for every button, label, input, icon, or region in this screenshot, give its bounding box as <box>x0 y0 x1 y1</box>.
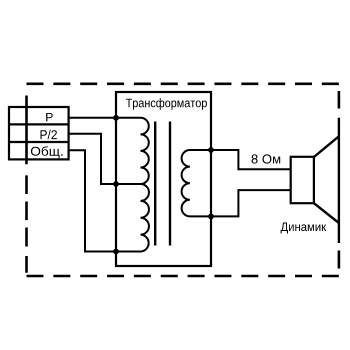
label P/2 <box>41 130 57 139</box>
wire secondary top to speaker <box>211 150 291 169</box>
label Dinamik <box>281 223 327 234</box>
speaker LS1 body <box>291 157 314 203</box>
wire P to primary top <box>69 117 116 119</box>
speaker cone lower slant <box>314 203 339 223</box>
wire P/2 to primary middle tap <box>69 134 116 184</box>
terminal box <box>9 107 69 159</box>
wire secondary bottom to speaker <box>211 190 291 216</box>
dashed enclosure bottom edge <box>27 275 339 278</box>
dashed enclosure right edge <box>338 91 341 269</box>
junction dot primary top <box>113 115 119 121</box>
speaker cone mouth vertical <box>338 118 340 243</box>
dashed enclosure top edge <box>27 83 339 86</box>
transformer core line right <box>169 122 171 246</box>
transformer T1 secondary winding <box>182 150 211 216</box>
dashed enclosure left edge solid segment through box <box>25 96 28 165</box>
junction dot secondary bottom <box>208 214 214 220</box>
transformer T1 primary winding lower half <box>116 184 149 252</box>
junction dot primary bottom <box>113 249 119 255</box>
transformer box <box>116 92 211 266</box>
dashed enclosure left edge <box>25 175 28 272</box>
label 8 Om <box>252 154 281 163</box>
transformer core line left <box>154 122 156 246</box>
label Obsh <box>31 146 63 158</box>
terminal box row divider 1 <box>9 123 69 125</box>
label P <box>46 113 53 121</box>
junction dot secondary top <box>208 147 214 153</box>
primary middle tap wire <box>116 183 141 185</box>
transformer title <box>126 98 207 110</box>
transformer T1 primary winding upper half <box>116 118 149 184</box>
speaker cone upper slant <box>314 136 339 157</box>
wire Obsh to primary bottom <box>69 150 116 251</box>
junction dot primary middle tap <box>113 181 119 187</box>
terminal box row divider 2 <box>9 141 69 143</box>
